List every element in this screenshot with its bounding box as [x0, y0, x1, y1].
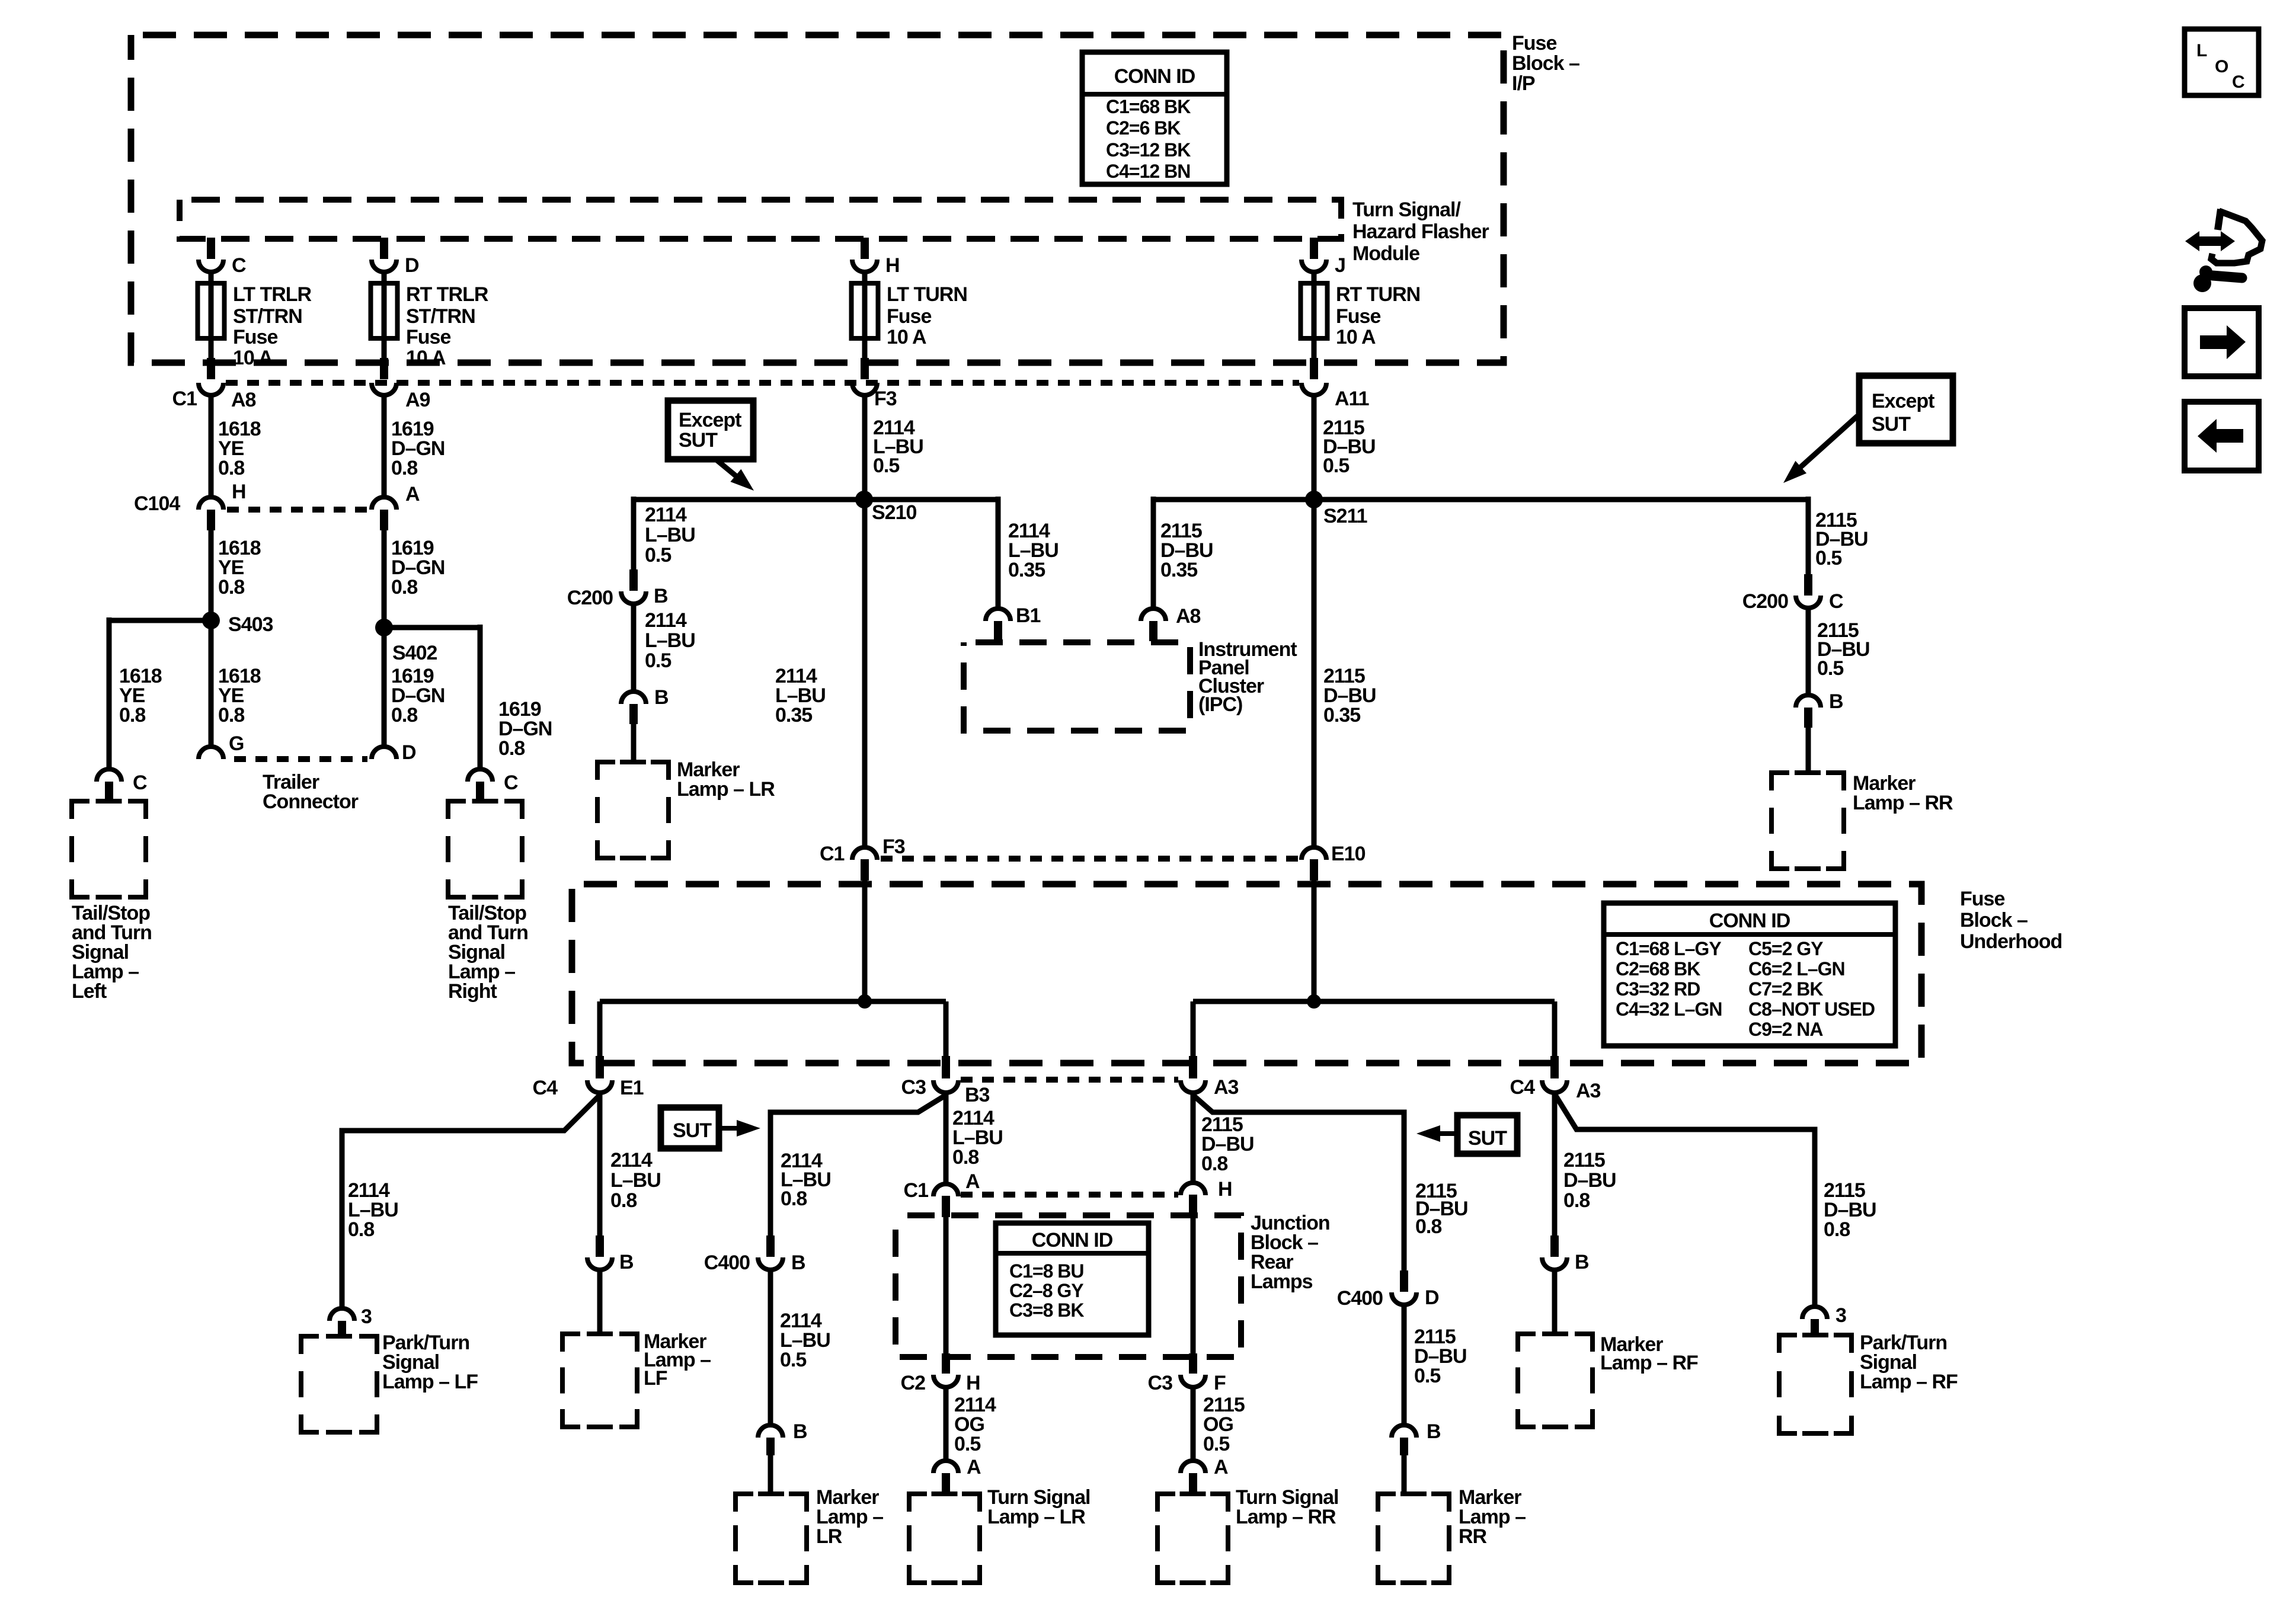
- svg-text:CONN ID: CONN ID: [1114, 65, 1195, 88]
- svg-text:S403: S403: [228, 613, 273, 636]
- svg-text:A: A: [965, 1170, 980, 1193]
- pin A3: [1189, 1056, 1197, 1078]
- pin C1 A8: [207, 358, 215, 379]
- svg-text:Fuse: Fuse: [1960, 888, 2004, 910]
- wire J to fuse: [1312, 272, 1317, 360]
- svg-text:2114: 2114: [610, 1149, 653, 1172]
- svg-text:LR: LR: [816, 1525, 842, 1548]
- svg-text:3: 3: [361, 1305, 372, 1328]
- svg-text:C5=2 GY: C5=2 GY: [1748, 938, 1823, 959]
- svg-text:C1=68 L–GY: C1=68 L–GY: [1616, 938, 1721, 959]
- svg-text:C3: C3: [1148, 1372, 1173, 1394]
- svg-text:C200: C200: [1742, 590, 1788, 613]
- SUT left box: [661, 1108, 719, 1148]
- dotted line C104 row: [227, 507, 369, 513]
- marker lamp LF box: [562, 1334, 637, 1427]
- wire D to fuse: [382, 272, 387, 360]
- pin A8 IPC: [1149, 621, 1157, 641]
- park/turn signal lamp RF box: [1779, 1335, 1851, 1433]
- svg-text:SUT: SUT: [1872, 413, 1911, 436]
- svg-text:Lamp – LR: Lamp – LR: [677, 778, 775, 801]
- svg-text:0.5: 0.5: [1323, 454, 1349, 477]
- connector H junction dome: [1181, 1183, 1205, 1195]
- wire B to marker RR box: [1806, 728, 1811, 775]
- svg-text:3: 3: [1835, 1304, 1846, 1327]
- turn signal lamp RR box: [1157, 1494, 1228, 1583]
- svg-text:D–BU: D–BU: [1563, 1169, 1616, 1192]
- connector B marker RR dome: [1796, 695, 1821, 708]
- dotted line B3-A3 row: [961, 1077, 1178, 1083]
- underhood drop to C4 A3: [1552, 1001, 1558, 1061]
- svg-text:B: B: [654, 585, 668, 607]
- pin B1: [994, 621, 1002, 641]
- marker lamp RR box: [1771, 773, 1844, 869]
- SUT left arrowhead: [737, 1120, 760, 1137]
- underhood drop to E1: [597, 1001, 603, 1061]
- svg-text:C200: C200: [567, 587, 613, 609]
- fuse LT TRLR ST/TRN 10A: [198, 283, 225, 338]
- pin connector D: [380, 238, 388, 259]
- except SUT right box: [1859, 376, 1953, 443]
- svg-text:Turn Signal/: Turn Signal/: [1352, 199, 1461, 221]
- svg-text:ST/TRN: ST/TRN: [233, 305, 302, 328]
- pin 3 park turn LF: [338, 1321, 346, 1339]
- wire C to fuse: [209, 272, 214, 360]
- pin A turn LR: [942, 1473, 950, 1492]
- svg-text:SUT: SUT: [673, 1119, 712, 1142]
- connector C1 A dome: [933, 1184, 958, 1196]
- pin connector C: [207, 238, 215, 259]
- wire branch down to C200 B: [631, 497, 637, 572]
- svg-text:B: B: [619, 1251, 634, 1273]
- wire B marker LF down: [597, 1270, 603, 1336]
- pin C200 B: [629, 569, 638, 591]
- wire A3 SUT branch: [1193, 1095, 1404, 1273]
- connector B marker LR bottom dome: [758, 1425, 783, 1438]
- wire H down to S403: [209, 530, 214, 620]
- connector C1 A8 cup: [199, 383, 223, 395]
- tail/stop and turn signal lamp left box: [72, 801, 146, 897]
- SUT right arrow line: [1437, 1131, 1457, 1136]
- svg-text:E1: E1: [620, 1077, 644, 1099]
- except SUT right arrowhead: [1783, 461, 1806, 483]
- svg-text:0.5: 0.5: [645, 649, 671, 672]
- svg-text:Right: Right: [448, 980, 497, 1003]
- svg-text:B: B: [1575, 1251, 1589, 1273]
- connector B marker RF cup: [1542, 1257, 1567, 1270]
- svg-text:D: D: [402, 741, 416, 764]
- connector A3 cup: [1181, 1080, 1205, 1093]
- svg-text:LF: LF: [644, 1367, 667, 1390]
- svg-text:2114: 2114: [645, 609, 687, 632]
- svg-text:C400: C400: [1337, 1287, 1383, 1310]
- wire branch down to C200 C: [1806, 497, 1811, 577]
- svg-text:CONN ID: CONN ID: [1709, 910, 1790, 932]
- svg-text:I/P: I/P: [1512, 72, 1535, 95]
- SUT right box: [1457, 1115, 1517, 1154]
- except SUT left box: [668, 401, 753, 459]
- svg-text:0.5: 0.5: [1203, 1433, 1229, 1455]
- svg-text:F: F: [1214, 1372, 1226, 1394]
- pin C200 C: [1804, 574, 1812, 596]
- svg-text:Connector: Connector: [263, 790, 359, 813]
- svg-text:A3: A3: [1576, 1080, 1601, 1102]
- wire F3 down to S210: [862, 395, 868, 500]
- connector J cup: [1302, 260, 1326, 272]
- svg-text:C: C: [2232, 72, 2244, 92]
- svg-text:Block –: Block –: [1960, 909, 2028, 932]
- wire C400 B down: [768, 1270, 773, 1425]
- pin E10: [1310, 859, 1318, 881]
- wire C4A3 down: [1552, 1093, 1558, 1238]
- vehicle double-arrow icon: [2185, 231, 2235, 251]
- svg-text:LT TURN: LT TURN: [887, 283, 967, 306]
- svg-text:B: B: [1829, 690, 1843, 713]
- pin C4 A3: [1550, 1056, 1559, 1078]
- connector C1 F3 dome: [852, 847, 877, 860]
- fuse RT TRLR ST/TRN 10A: [371, 283, 398, 338]
- svg-text:Fuse: Fuse: [1512, 32, 1556, 55]
- connector D cup: [372, 260, 396, 272]
- dotted line C1 connector row: [226, 380, 1299, 386]
- wire A8 down: [209, 395, 214, 498]
- pin C4 E1: [596, 1056, 604, 1078]
- svg-text:10 A: 10 A: [233, 347, 273, 369]
- svg-text:SUT: SUT: [1468, 1127, 1507, 1150]
- fuse LT TURN 10A: [852, 283, 878, 338]
- svg-text:C2–8 GY: C2–8 GY: [1009, 1280, 1083, 1301]
- tail/stop and turn signal lamp right box: [448, 801, 522, 897]
- junction underhood right: [1307, 994, 1321, 1009]
- connector D trailer dome: [372, 747, 396, 759]
- wire B to marker LR box: [631, 724, 637, 764]
- svg-text:Except: Except: [679, 409, 741, 431]
- pin B marker RR bottom: [1400, 1438, 1408, 1455]
- connector 3 park turn RF dome: [1802, 1307, 1827, 1319]
- svg-text:0.5: 0.5: [873, 454, 899, 477]
- svg-text:0.5: 0.5: [780, 1349, 806, 1371]
- wire S211 branch left: [1153, 497, 1314, 502]
- wire branch down to A8 IPC: [1151, 497, 1156, 609]
- junction block rear lamps box: [896, 1215, 1241, 1357]
- dotted line F3-E10 row: [881, 856, 1299, 862]
- park/turn signal lamp LF box: [301, 1336, 377, 1432]
- svg-text:C: C: [133, 772, 147, 794]
- connector G dome: [199, 747, 223, 759]
- pin A turn RR: [1189, 1473, 1197, 1492]
- connector C400 D cup: [1392, 1292, 1416, 1305]
- wire H through junction block: [1191, 1215, 1196, 1358]
- svg-text:L–BU: L–BU: [610, 1169, 661, 1192]
- svg-text:S210: S210: [872, 501, 916, 524]
- svg-text:A11: A11: [1335, 388, 1369, 410]
- marker lamp LR box: [597, 762, 669, 858]
- conn id table underhood: [1604, 903, 1895, 1046]
- fuse block I/P box: [131, 35, 1504, 363]
- pin connector J: [1310, 238, 1318, 259]
- connector C cup: [199, 260, 223, 272]
- wire H to fuse: [862, 272, 868, 360]
- connector E10 dome: [1302, 847, 1326, 860]
- connector C104 H dome: [199, 497, 223, 510]
- left arrow icon box: [2185, 402, 2259, 470]
- svg-text:O: O: [2215, 57, 2228, 76]
- svg-text:A8: A8: [231, 389, 256, 411]
- conn id table underhood header line: [1604, 932, 1895, 937]
- svg-text:Fuse: Fuse: [1336, 305, 1380, 328]
- connector A turn LR dome: [933, 1461, 958, 1473]
- svg-text:G: G: [229, 732, 244, 755]
- conn id table junction block: [996, 1223, 1149, 1335]
- svg-text:0.35: 0.35: [1160, 559, 1197, 581]
- svg-text:L–BU: L–BU: [645, 629, 695, 652]
- svg-text:A: A: [1214, 1456, 1228, 1478]
- svg-text:C1: C1: [172, 388, 197, 410]
- svg-text:(IPC): (IPC): [1198, 693, 1242, 716]
- connector C tail lamp left dome: [97, 769, 121, 782]
- svg-text:0.35: 0.35: [775, 704, 812, 726]
- svg-text:Fuse: Fuse: [233, 326, 277, 348]
- svg-text:H: H: [1218, 1178, 1232, 1201]
- svg-text:SUT: SUT: [679, 429, 718, 452]
- dotted line trailer connector row: [234, 756, 367, 762]
- connector A8 IPC dome: [1141, 609, 1166, 621]
- pin A11: [1310, 358, 1318, 379]
- wire C400 D down: [1402, 1305, 1407, 1425]
- marker lamp RF box: [1518, 1334, 1593, 1427]
- svg-text:S402: S402: [392, 642, 437, 664]
- wire B3 SUT branch: [770, 1095, 946, 1238]
- svg-text:C: C: [504, 772, 518, 794]
- connector C104 A dome: [372, 497, 396, 510]
- except SUT right arrow line: [1793, 416, 1857, 474]
- svg-text:0.8: 0.8: [1201, 1153, 1227, 1175]
- junction underhood left: [858, 994, 872, 1009]
- pin B marker RR: [1804, 708, 1812, 728]
- svg-text:C4: C4: [1510, 1076, 1536, 1099]
- wrench icon: [2199, 265, 2212, 279]
- svg-text:C1: C1: [820, 843, 845, 865]
- wire E1 diagonal branch: [342, 1095, 600, 1308]
- svg-text:Except: Except: [1872, 390, 1934, 412]
- connector C200 C cup: [1796, 596, 1821, 608]
- svg-text:C2=68 BK: C2=68 BK: [1616, 958, 1700, 980]
- svg-text:A9: A9: [405, 389, 430, 411]
- wire E10 into underhood: [1312, 881, 1317, 1001]
- wire F3 into underhood: [862, 881, 868, 1001]
- wire B marker RF down: [1552, 1270, 1558, 1336]
- connector B marker RR bottom dome: [1392, 1425, 1416, 1438]
- conn id table I/P: [1082, 52, 1227, 184]
- wire S402 to D trailer: [382, 628, 387, 747]
- wire branch down to lamp C: [107, 617, 112, 769]
- except SUT left arrowhead: [730, 469, 754, 491]
- turn signal hazard flasher module box: [180, 200, 1341, 239]
- right arrow glyph: [2200, 325, 2246, 359]
- fuse block underhood box: [572, 884, 1921, 1063]
- svg-text:0.8: 0.8: [119, 704, 145, 726]
- wire S211 branch right: [1314, 497, 1808, 502]
- svg-text:Module: Module: [1352, 242, 1419, 265]
- svg-text:J: J: [1335, 254, 1345, 277]
- svg-text:CONN ID: CONN ID: [1032, 1229, 1113, 1251]
- pin C104 A: [380, 510, 388, 530]
- splice S211: [1305, 491, 1323, 508]
- pin H junction: [1189, 1195, 1197, 1216]
- svg-text:10 A: 10 A: [887, 326, 926, 348]
- wire A3 down to H: [1191, 1093, 1196, 1183]
- pin 3 park turn RF: [1811, 1319, 1819, 1337]
- svg-text:Hazard Flasher: Hazard Flasher: [1352, 220, 1489, 243]
- connector C tail lamp right dome: [468, 769, 493, 782]
- svg-text:ST/TRN: ST/TRN: [406, 305, 475, 328]
- svg-text:C3: C3: [901, 1076, 926, 1099]
- connector C400 B cup: [758, 1257, 783, 1270]
- svg-text:0.8: 0.8: [391, 704, 417, 726]
- svg-text:0.8: 0.8: [218, 576, 244, 598]
- svg-text:Lamp – RF: Lamp – RF: [1600, 1352, 1698, 1374]
- svg-text:C1: C1: [904, 1179, 929, 1202]
- svg-text:Fuse: Fuse: [887, 305, 931, 328]
- svg-text:Lamp – LF: Lamp – LF: [382, 1371, 478, 1393]
- turn signal lamp LR box: [909, 1494, 980, 1583]
- svg-text:RR: RR: [1459, 1525, 1487, 1548]
- wire S210 branch left: [634, 497, 864, 502]
- connector C4 E1 cup: [587, 1080, 612, 1093]
- svg-text:RT TURN: RT TURN: [1336, 283, 1420, 306]
- connector B marker LR dome: [621, 692, 646, 704]
- pin B marker LR bottom: [766, 1438, 775, 1455]
- svg-text:C4=12 BN: C4=12 BN: [1106, 161, 1190, 182]
- marker lamp LR bottom box: [736, 1494, 807, 1583]
- connector C200 B cup: [621, 591, 646, 604]
- connector A11 cup: [1302, 383, 1326, 395]
- connector A9 cup: [372, 383, 396, 395]
- conn id table junction header line: [996, 1251, 1149, 1256]
- svg-text:2115: 2115: [1563, 1149, 1605, 1172]
- connector C3 B3 cup: [933, 1080, 958, 1093]
- pin connector H: [861, 238, 869, 259]
- wire C4A3 diagonal branch: [1555, 1094, 1815, 1307]
- svg-text:0.8: 0.8: [952, 1146, 978, 1169]
- svg-text:C1=8 BU: C1=8 BU: [1009, 1260, 1084, 1282]
- svg-text:C4: C4: [533, 1077, 558, 1099]
- svg-text:0.5: 0.5: [645, 544, 671, 566]
- svg-text:B: B: [654, 686, 669, 709]
- svg-text:B1: B1: [1016, 604, 1041, 627]
- wire to marker LR bottom box: [768, 1455, 773, 1494]
- pin C2 H: [942, 1353, 950, 1374]
- pin C tail lamp left: [105, 782, 113, 802]
- svg-text:0.5: 0.5: [1817, 657, 1843, 680]
- svg-text:LT TRLR: LT TRLR: [233, 283, 312, 306]
- connector H cup: [852, 260, 877, 272]
- svg-text:0.8: 0.8: [391, 576, 417, 598]
- connector B marker LF cup: [587, 1257, 612, 1270]
- svg-text:Lamps: Lamps: [1251, 1270, 1313, 1293]
- svg-text:C104: C104: [134, 492, 180, 515]
- svg-text:A3: A3: [1214, 1076, 1239, 1099]
- marker lamp RR bottom box: [1378, 1494, 1449, 1583]
- svg-text:Lamp – LR: Lamp – LR: [987, 1506, 1085, 1528]
- svg-text:C3=12 BK: C3=12 BK: [1106, 139, 1191, 161]
- svg-text:E10: E10: [1331, 843, 1366, 865]
- wire B3 down to C1 A: [944, 1093, 949, 1184]
- wire to marker RR bottom box: [1402, 1455, 1407, 1494]
- svg-text:0.35: 0.35: [1008, 559, 1045, 581]
- pin C400 B: [766, 1235, 775, 1257]
- pin C tail lamp right: [476, 782, 484, 802]
- svg-text:0.8: 0.8: [218, 704, 244, 726]
- svg-text:A: A: [405, 483, 420, 505]
- pin B marker LR: [629, 704, 638, 724]
- svg-text:S211: S211: [1323, 505, 1367, 527]
- svg-text:Lamp – RR: Lamp – RR: [1853, 792, 1953, 814]
- pin A9: [380, 358, 388, 379]
- wire S402 branch horizontal: [384, 625, 480, 630]
- pin C3 F: [1189, 1353, 1197, 1374]
- svg-text:Lamp – RF: Lamp – RF: [1860, 1371, 1958, 1393]
- wire S210 branch right: [864, 497, 998, 502]
- wire C200B down: [631, 604, 637, 693]
- svg-text:0.8: 0.8: [781, 1188, 807, 1210]
- svg-text:C3=8 BK: C3=8 BK: [1009, 1299, 1084, 1321]
- svg-text:0.8: 0.8: [1563, 1189, 1590, 1212]
- svg-text:B: B: [791, 1251, 805, 1274]
- pin C3 B3: [942, 1056, 950, 1078]
- svg-text:C1=68 BK: C1=68 BK: [1106, 96, 1191, 117]
- svg-text:Lamp – RR: Lamp – RR: [1236, 1506, 1336, 1528]
- splice S403: [202, 612, 220, 629]
- svg-text:C4=32 L–GN: C4=32 L–GN: [1616, 998, 1722, 1020]
- connector A turn RR dome: [1181, 1461, 1205, 1473]
- svg-text:0.8: 0.8: [498, 737, 525, 760]
- svg-text:C3=32 RD: C3=32 RD: [1616, 978, 1700, 1000]
- connector C4 A3 cup: [1542, 1080, 1567, 1093]
- svg-text:10 A: 10 A: [406, 347, 446, 369]
- connector C2 H cup: [933, 1375, 958, 1387]
- svg-text:C: C: [1829, 590, 1843, 613]
- right arrow icon box: [2185, 308, 2259, 376]
- wire F down: [1191, 1387, 1196, 1461]
- dotted line A-H row: [961, 1192, 1178, 1198]
- svg-text:0.5: 0.5: [954, 1433, 980, 1455]
- svg-text:H: H: [885, 254, 900, 277]
- svg-text:B3: B3: [965, 1084, 990, 1106]
- svg-text:C7=2 BK: C7=2 BK: [1748, 978, 1823, 1000]
- svg-text:C2: C2: [901, 1372, 926, 1394]
- svg-text:B: B: [793, 1420, 807, 1443]
- svg-text:H: H: [232, 481, 246, 503]
- svg-text:0.8: 0.8: [610, 1189, 637, 1212]
- svg-text:A: A: [967, 1456, 981, 1478]
- wire A through junction block: [944, 1216, 949, 1358]
- svg-text:0.35: 0.35: [1323, 704, 1360, 726]
- wire S403 branch horizontal: [109, 618, 211, 623]
- pin C400 D: [1400, 1270, 1408, 1292]
- wire S211 down to E10: [1312, 500, 1317, 847]
- svg-text:D: D: [1425, 1286, 1439, 1309]
- SUT right arrowhead: [1416, 1125, 1440, 1142]
- svg-text:0.8: 0.8: [348, 1218, 374, 1241]
- left arrow glyph: [2198, 419, 2243, 453]
- connector B1 dome: [986, 609, 1011, 621]
- svg-text:F3: F3: [882, 836, 905, 858]
- vehicle outline icon: [2218, 209, 2221, 230]
- wire E1 down: [597, 1093, 603, 1238]
- svg-text:C8–NOT USED: C8–NOT USED: [1748, 998, 1875, 1020]
- svg-text:C: C: [232, 254, 246, 277]
